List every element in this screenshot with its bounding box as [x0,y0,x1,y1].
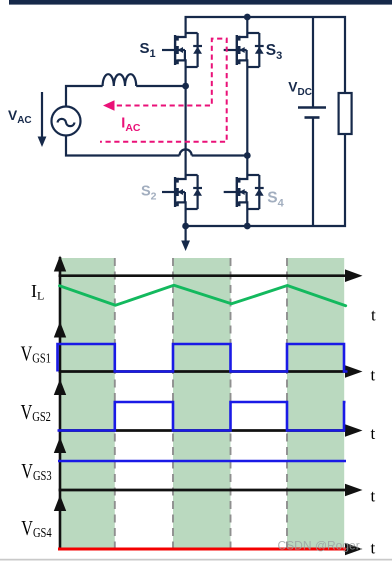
V_GS1 gate waveform [58,344,348,372]
label V_GS3 [21,460,51,484]
svg-text:t: t [371,487,376,506]
S1 body-diode triangle [193,47,202,54]
wire AC source top to inductor [66,86,103,107]
wire AC source bottom [66,136,180,156]
transistor S2 [162,175,202,209]
waveform vertical axis line [59,257,62,549]
time axis row1 [59,274,349,277]
dashed gridline x=287 [286,258,288,548]
svg-text:VGS2: VGS2 [21,401,51,425]
I_L inductor current waveform [60,285,346,305]
waveform shaded band 1 [60,258,115,548]
transistor S1 [162,33,202,67]
svg-text:CSDN @Roger.: CSDN @Roger. [278,539,363,553]
label V_GS4 [21,517,51,541]
label V_GS2 [21,401,51,425]
wire S1 source to S2 drain [185,67,187,175]
svg-text:IL: IL [31,281,44,303]
dashed gridline x=173 [172,258,174,548]
S4 channel arrow [239,189,244,195]
load resistor R [339,93,352,134]
AC source V_AC [52,107,81,136]
svg-text:t: t [371,539,376,558]
axis up-arrowhead row4 [54,437,66,453]
svg-text:t: t [371,366,376,385]
S3 body-diode triangle [255,47,264,54]
time axis row3 [59,429,349,432]
time axis row2 [59,370,349,373]
axis up-arrowhead row5 [54,495,66,511]
S3 channel arrow [239,47,244,53]
wire S3 source to S4 drain [246,67,248,175]
dashed gridline x=230.5 [230,258,232,548]
svg-text:VGS1: VGS1 [21,342,51,366]
V_GS4 gate waveform (always off, red zero line) [58,548,346,551]
node bottom-left junction dot [182,223,189,230]
axis up-arrowhead row2 [54,322,66,338]
time axis row4 [59,489,349,492]
svg-text:S4: S4 [267,189,284,209]
capacitor C (V_DC) plates [298,108,326,118]
wire S3 drain [246,17,248,33]
svg-text:t: t [371,424,376,443]
capacitor branch wire bottom [312,118,314,226]
node bottom-right junction dot [244,223,251,230]
bottom rail wire [186,134,345,226]
wire S4 source to bottom rail [246,209,248,226]
inductor L [103,74,137,86]
svg-text:t: t [371,306,376,325]
top rail wire [186,17,345,93]
top navy header bar [9,0,392,5]
S4 body-diode triangle [255,189,264,196]
capacitor branch wire top [312,17,314,107]
label V_GS1 [21,342,51,366]
node A junction dot [182,83,189,90]
svg-text:VAC: VAC [8,108,32,126]
transistor S4 [224,175,264,209]
node top junction dot [244,14,251,21]
wire hop over left leg [180,149,192,155]
bottom divider line [0,559,392,561]
dashed gridline x=114.8 [114,258,116,548]
I_AC arrowhead [103,100,115,111]
wire inductor to node A [136,85,185,87]
axis up-arrowhead row3 [54,379,66,395]
V_AC reference arrow [38,92,47,147]
V_GS2 gate waveform [58,402,346,431]
svg-text:IAC: IAC [121,116,141,135]
S2 body-diode triangle [193,189,202,196]
I_AC dashed current path [100,39,227,142]
svg-text:VDC: VDC [288,80,312,98]
svg-text:VGS4: VGS4 [21,517,51,541]
node B junction dot [244,152,251,159]
S2 channel arrow [178,189,183,195]
ground/output down arrow [181,226,190,251]
S1 channel arrow [178,47,183,53]
wire hop to node B [192,154,248,156]
svg-text:S2: S2 [141,184,157,203]
svg-text:VGS3: VGS3 [21,460,51,484]
transistor S3 [224,33,264,67]
svg-text:S1: S1 [140,40,156,60]
axis up-arrowhead row1 [54,256,66,272]
V_GS3 gate waveform (always on) [58,460,346,463]
svg-text:S3: S3 [266,42,282,62]
waveform shaded band 2 [173,258,231,548]
time axis row5 arrowhead [345,543,363,556]
waveform shaded band 3 [287,258,344,548]
